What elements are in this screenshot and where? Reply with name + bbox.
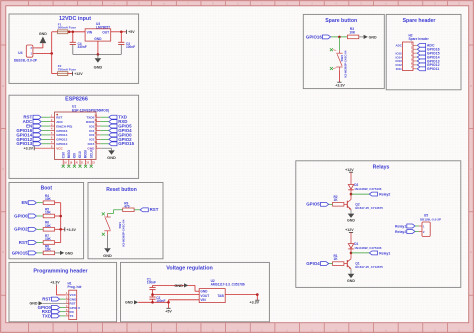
- svg-text:GND: GND: [174, 283, 183, 288]
- svg-text:+3.3V: +3.3V: [24, 147, 34, 151]
- svg-text:VCC: VCC: [56, 147, 63, 151]
- svg-text:ADC: ADC: [396, 44, 403, 48]
- svg-text:10K: 10K: [349, 30, 356, 34]
- svg-text:GND: GND: [347, 219, 355, 223]
- svg-text:GPIO16: GPIO16: [56, 129, 67, 133]
- svg-text:K2-6639SP-C4SC-04: K2-6639SP-C4SC-04: [343, 50, 347, 77]
- svg-text:GND: GND: [103, 253, 112, 258]
- svg-text:K2-6639SP-C4SC-04: K2-6639SP-C4SC-04: [121, 219, 125, 246]
- svg-text:ADC: ADC: [56, 120, 63, 124]
- svg-text:Relays: Relays: [373, 165, 390, 171]
- svg-text:MOSI: MOSI: [84, 150, 88, 158]
- svg-text:GND: GND: [65, 251, 73, 255]
- svg-text:EN(CH-PD): EN(CH-PD): [56, 124, 72, 128]
- svg-text:GPIO16: GPIO16: [306, 34, 322, 39]
- svg-text:GPIO0: GPIO0: [14, 213, 28, 218]
- svg-text:10K: 10K: [45, 197, 52, 201]
- svg-text:GND: GND: [94, 37, 102, 41]
- svg-text:12VDC input: 12VDC input: [59, 16, 91, 22]
- svg-text:D: D: [2, 250, 4, 254]
- svg-text:ESP8266: ESP8266: [65, 96, 88, 102]
- svg-text:AMS1117-3.3_C351786: AMS1117-3.3_C351786: [211, 282, 245, 286]
- svg-text:Spare header: Spare header: [409, 37, 430, 41]
- svg-text:IO10: IO10: [78, 151, 82, 158]
- svg-text:MISO: MISO: [67, 150, 71, 159]
- svg-text:GPIO11: GPIO11: [427, 67, 440, 71]
- svg-text:GND: GND: [107, 155, 116, 160]
- svg-text:Boot: Boot: [41, 186, 53, 192]
- svg-text:RST: RST: [19, 240, 28, 245]
- svg-text:+3.3V: +3.3V: [250, 301, 260, 305]
- svg-text:10K: 10K: [45, 224, 52, 228]
- svg-text:SCLK: SCLK: [89, 149, 93, 158]
- svg-text:500mA Fuse: 500mA Fuse: [58, 26, 76, 30]
- svg-text:GPIO13: GPIO13: [16, 141, 32, 146]
- svg-text:Relay2: Relay2: [395, 230, 406, 234]
- svg-text:DB103L-5.0-2P: DB103L-5.0-2P: [14, 58, 38, 62]
- svg-text:BC817-25_C713675: BC817-25_C713675: [355, 206, 383, 210]
- svg-text:GND: GND: [369, 35, 377, 39]
- svg-text:+12V: +12V: [345, 228, 354, 232]
- svg-text:100nF: 100nF: [126, 45, 135, 49]
- svg-text:1N4448W_C475436: 1N4448W_C475436: [354, 246, 382, 250]
- svg-text:Relay1: Relay1: [395, 224, 406, 228]
- svg-text:GPIO14: GPIO14: [56, 133, 67, 137]
- svg-text:EN: EN: [21, 200, 27, 205]
- svg-text:100nF: 100nF: [147, 281, 156, 285]
- svg-text:CS0: CS0: [61, 152, 65, 158]
- svg-text:+3.3V: +3.3V: [66, 228, 76, 232]
- svg-text:1K: 1K: [334, 198, 339, 202]
- svg-text:Programming header: Programming header: [33, 269, 88, 275]
- svg-text:Spare button: Spare button: [325, 18, 357, 24]
- svg-text:RST: RST: [150, 207, 159, 212]
- svg-text:VIN: VIN: [87, 31, 93, 35]
- svg-text:GND: GND: [125, 301, 133, 305]
- svg-text:10K: 10K: [45, 237, 52, 241]
- svg-text:TXD0: TXD0: [86, 116, 94, 120]
- svg-text:Voltage regulation: Voltage regulation: [166, 266, 213, 272]
- svg-text:RST: RST: [42, 297, 51, 302]
- svg-text:10K: 10K: [45, 211, 52, 215]
- svg-text:RST: RST: [56, 116, 62, 120]
- svg-text:750mA Fuse: 750mA Fuse: [58, 68, 76, 72]
- svg-text:RXD0: RXD0: [86, 120, 95, 124]
- svg-text:+12V: +12V: [74, 72, 83, 76]
- svg-text:GPIO5: GPIO5: [306, 202, 320, 207]
- svg-text:+5V: +5V: [165, 310, 172, 314]
- svg-text:VIN: VIN: [200, 298, 206, 302]
- svg-text:C: C: [470, 167, 472, 171]
- svg-text:Prog. hdr: Prog. hdr: [68, 285, 83, 289]
- svg-text:Reset button: Reset button: [106, 187, 137, 193]
- svg-text:GPIO15: GPIO15: [118, 141, 134, 146]
- svg-text:Relay1: Relay1: [379, 251, 390, 255]
- svg-text:TAB: TAB: [217, 294, 224, 298]
- svg-text:Spare header: Spare header: [403, 18, 436, 24]
- svg-text:+5V: +5V: [128, 30, 135, 34]
- svg-text:B: B: [2, 84, 4, 88]
- svg-text:GPIO4: GPIO4: [306, 261, 320, 266]
- svg-text:GPIO15: GPIO15: [12, 250, 28, 255]
- svg-text:D: D: [470, 250, 472, 254]
- svg-text:IO9: IO9: [73, 153, 77, 158]
- svg-text:DB126L-5.0-2P: DB126L-5.0-2P: [420, 217, 441, 221]
- svg-text:1K: 1K: [334, 257, 339, 261]
- svg-text:U4: U4: [18, 51, 22, 55]
- svg-text:+3.3V: +3.3V: [335, 84, 345, 88]
- svg-text:BC817-25_C713675: BC817-25_C713675: [355, 265, 383, 269]
- svg-text:B: B: [470, 84, 472, 88]
- svg-text:+3.3V: +3.3V: [50, 280, 60, 284]
- svg-text:IO11: IO11: [396, 67, 402, 71]
- svg-text:1N4448W_C475436: 1N4448W_C475436: [354, 187, 382, 191]
- svg-text:GND: GND: [39, 32, 47, 36]
- svg-text:TXD: TXD: [42, 313, 51, 318]
- svg-text:OUT: OUT: [102, 31, 109, 35]
- svg-text:GND: GND: [347, 279, 355, 283]
- svg-text:GND: GND: [94, 64, 103, 69]
- svg-text:GPIO13: GPIO13: [56, 142, 67, 146]
- svg-text:GPIO2: GPIO2: [14, 227, 28, 232]
- svg-text:+12V: +12V: [345, 168, 354, 172]
- svg-text:Relay2: Relay2: [379, 193, 390, 197]
- svg-text:GPIO12: GPIO12: [56, 138, 67, 142]
- svg-text:C: C: [2, 167, 4, 171]
- svg-text:LM7805T: LM7805T: [96, 25, 110, 29]
- svg-text:10K: 10K: [45, 247, 52, 251]
- svg-text:470: 470: [124, 204, 130, 208]
- svg-text:330nF: 330nF: [78, 45, 87, 49]
